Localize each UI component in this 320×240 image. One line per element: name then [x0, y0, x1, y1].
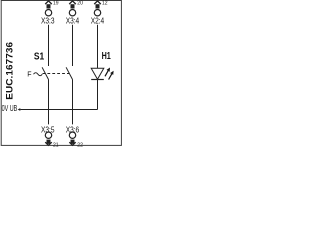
terminal X3:5 — [45, 132, 51, 138]
wire X2:4 to H1 — [97, 25, 99, 69]
0V UB rail — [20, 109, 97, 111]
interruption arrow 12 (top, X2:4) — [94, 1, 101, 9]
svg-text:EUC.167736: EUC.167736 — [5, 42, 16, 100]
svg-text:H1: H1 — [102, 51, 112, 62]
LED emission arrow 1 — [105, 68, 110, 77]
interruption arrow 21 (bottom, X3:5) — [45, 140, 52, 146]
svg-text:X3:4: X3:4 — [66, 16, 80, 25]
terminal X2:4 — [94, 10, 100, 16]
LED H1 cathode bar — [91, 79, 104, 81]
switch S1 pole 1 blade — [42, 67, 48, 79]
wire X3:3 to S1 pole 1 — [48, 25, 50, 66]
svg-text:S1: S1 — [34, 51, 44, 62]
svg-text:20: 20 — [77, 1, 83, 7]
terminal X3:6 — [69, 132, 75, 138]
border frame — [1, 1, 121, 146]
LED emission arrow 2 — [109, 71, 114, 80]
switch S1 pole 2 blade — [66, 67, 72, 79]
wire S1 pole 1 to X3:5 — [48, 80, 50, 125]
interruption arrow 22 (bottom, X3:6) — [69, 140, 75, 146]
svg-text:21: 21 — [53, 142, 59, 148]
wire S1 pole 2 to X3:6 — [72, 80, 74, 125]
LED H1 triangle — [91, 68, 104, 79]
mechanical linkage (dashed) — [43, 73, 70, 75]
wire X3:4 to S1 pole 2 — [72, 25, 74, 66]
interruption arrow 20 (top, X3:4) — [69, 1, 76, 9]
svg-text:X2:4: X2:4 — [91, 16, 105, 25]
terminal X3:4 — [69, 10, 75, 16]
actuator wave symbol — [34, 73, 43, 76]
potential arrow — [18, 108, 21, 111]
svg-text:F: F — [27, 71, 31, 78]
wire H1 to 0V — [97, 80, 99, 110]
svg-text:22: 22 — [77, 142, 83, 148]
svg-text:0V UB: 0V UB — [2, 104, 18, 113]
svg-text:12: 12 — [102, 1, 108, 7]
terminal X3:3 — [45, 10, 51, 16]
svg-text:19: 19 — [53, 1, 59, 7]
interruption arrow 19 (top, X3:3) — [45, 1, 52, 9]
svg-text:X3:3: X3:3 — [41, 16, 55, 25]
